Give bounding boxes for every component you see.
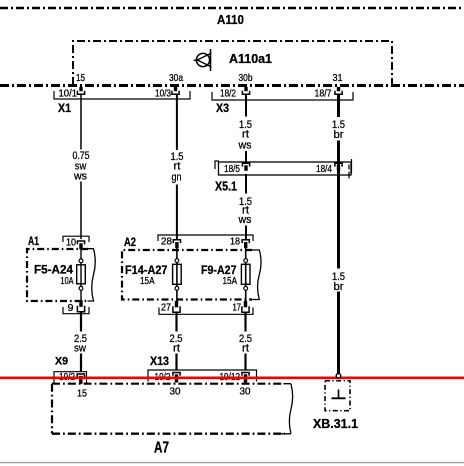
svg-text:rt: rt	[242, 343, 249, 355]
pin 18	[230, 237, 249, 249]
ground point XB.31.1	[313, 381, 358, 431]
connector X13	[148, 354, 257, 383]
svg-text:10: 10	[66, 238, 76, 249]
X13 pin right	[242, 373, 249, 383]
svg-text:10/3: 10/3	[155, 89, 171, 100]
X5.1 pin 18/4	[335, 163, 342, 171]
horn symbol U	[194, 49, 211, 71]
X13 pin left	[173, 373, 180, 383]
wire label 1.5 rt ws (below X5.1)	[238, 196, 252, 226]
bus line (A110 bottom border)	[0, 84, 464, 87]
svg-text:30: 30	[170, 387, 181, 398]
terminal 31	[315, 73, 343, 100]
wire 15 -> fuse F5	[80, 94, 82, 239]
svg-text:30b: 30b	[239, 73, 253, 84]
A2 top bracket	[158, 235, 253, 241]
wire 31 -> ground	[337, 94, 340, 374]
wire label 1.5 rt gn	[171, 151, 184, 184]
wire label 1.5 br (upper)	[332, 119, 345, 141]
wire label 1.5 br (lower)	[332, 271, 345, 293]
svg-text:ws: ws	[238, 214, 252, 226]
svg-text:10A: 10A	[61, 276, 74, 287]
svg-text:18/2: 18/2	[220, 89, 236, 100]
fuse box A2	[122, 235, 261, 300]
svg-text:15: 15	[77, 389, 87, 400]
svg-text:18: 18	[230, 237, 240, 248]
svg-text:sw: sw	[74, 343, 86, 355]
svg-text:15A: 15A	[223, 276, 238, 287]
terminal 30a	[155, 73, 183, 100]
control unit A110a1 box	[73, 41, 392, 85]
svg-text:31: 31	[333, 73, 343, 84]
A1 bottom bracket	[63, 307, 89, 314]
svg-text:15: 15	[76, 73, 85, 84]
svg-text:17: 17	[233, 303, 242, 314]
svg-text:rt: rt	[173, 343, 180, 355]
wire 30b -> X5.1 -> fuse F9	[245, 94, 247, 239]
svg-text:ws: ws	[238, 140, 252, 152]
wire label 1.5 rt ws (above X5.1)	[238, 119, 252, 152]
fuse F5-A24	[34, 249, 85, 302]
svg-text:br: br	[334, 281, 344, 293]
X5.1 pin 18/5	[242, 163, 249, 171]
wire fuse F14 -> X13	[175, 313, 177, 371]
pin 27	[161, 301, 180, 314]
fuse F14-A27	[125, 247, 181, 301]
wire label 2.5 sw	[74, 333, 87, 355]
svg-text:28: 28	[161, 237, 172, 248]
svg-text:F9-A27: F9-A27	[201, 263, 237, 277]
svg-text:A110: A110	[217, 12, 244, 27]
ground terminal circle	[336, 374, 341, 379]
wire fuse F9 -> X13	[244, 313, 246, 371]
wire 30a -> fuse F14	[176, 94, 178, 239]
svg-text:br: br	[334, 129, 344, 141]
svg-text:30a: 30a	[169, 73, 183, 84]
connector X3 bracket	[212, 92, 353, 115]
svg-text:27: 27	[161, 303, 171, 314]
svg-text:gn: gn	[172, 172, 182, 184]
A1 top bracket	[63, 236, 89, 242]
connector X9	[54, 356, 87, 384]
svg-text:18/4: 18/4	[316, 164, 332, 175]
svg-text:30: 30	[240, 387, 251, 398]
X9 pin	[77, 374, 84, 384]
pin 10	[66, 238, 85, 250]
svg-text:10/1: 10/1	[59, 89, 78, 100]
svg-text:X1: X1	[58, 101, 71, 115]
pin 28	[161, 237, 181, 249]
red cut line	[0, 377, 464, 380]
fuse F9-A27	[201, 247, 250, 301]
svg-text:9: 9	[68, 303, 74, 314]
svg-text:X3: X3	[216, 101, 229, 115]
wire fuse F5 -> X9	[80, 313, 82, 372]
wire label 2.5 rt	[239, 333, 252, 355]
svg-text:F5-A24: F5-A24	[34, 263, 73, 277]
svg-text:15A: 15A	[140, 276, 155, 287]
svg-text:F14-A27: F14-A27	[125, 263, 168, 277]
svg-text:X13: X13	[150, 354, 169, 368]
control unit A110 top border	[0, 7, 464, 9]
terminal 15	[59, 73, 86, 100]
wire label 2.5 rt	[170, 333, 183, 355]
svg-text:X5.1: X5.1	[215, 180, 237, 194]
pin 9	[68, 300, 85, 314]
svg-text:XB.31.1: XB.31.1	[313, 417, 358, 431]
svg-text:A110a1: A110a1	[229, 51, 272, 66]
A2 bottom bracket	[159, 308, 253, 315]
connector X5.1	[215, 159, 352, 194]
wire label 0.75 sw ws	[73, 150, 90, 183]
bottom hairline	[0, 462, 464, 464]
svg-text:X9: X9	[55, 356, 68, 368]
terminal 30b	[220, 73, 253, 100]
svg-text:18/7: 18/7	[315, 89, 332, 100]
svg-text:ws: ws	[73, 171, 87, 183]
svg-text:18/5: 18/5	[224, 164, 240, 175]
control unit A7 box	[52, 384, 293, 457]
pin 17	[233, 301, 250, 314]
svg-text:A7: A7	[154, 440, 169, 457]
svg-text:A1: A1	[28, 234, 39, 248]
svg-text:A2: A2	[124, 235, 136, 249]
fuse box A1	[27, 234, 95, 301]
connector X1 bracket	[54, 91, 190, 115]
